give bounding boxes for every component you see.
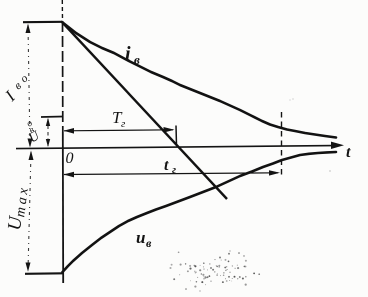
tг dimension line — [64, 173, 278, 175]
svg-text:0: 0 — [66, 150, 74, 167]
Tг end tick — [175, 126, 178, 146]
Iво dimension line — [28, 25, 30, 146]
tг right arrow — [269, 170, 280, 175]
t axis — [16, 146, 333, 149]
vertical axis line (solid lower section) — [62, 132, 64, 283]
Iво bottom arrow — [28, 139, 33, 148]
dashed vertical marker at end of tг — [281, 112, 283, 177]
Iво top arrow — [26, 24, 31, 34]
svg-text:г: г — [172, 164, 176, 176]
svg-text:u: u — [136, 228, 145, 247]
Uво bottom arrow — [46, 139, 50, 147]
svg-text:t: t — [346, 144, 351, 161]
label tг — [164, 157, 176, 176]
tг left arrow — [64, 172, 75, 178]
Uво tick — [41, 116, 63, 119]
label Iво (rotated) — [1, 72, 31, 105]
Uво dimension line — [47, 119, 49, 146]
curve uв — [63, 152, 337, 272]
straight discharge line — [62, 22, 227, 199]
Tг left arrow — [64, 128, 75, 134]
label Tг — [112, 108, 126, 130]
bottom tick Umax level — [25, 272, 63, 275]
svg-text:г: г — [121, 118, 126, 130]
label uв — [136, 228, 152, 250]
Umax dimension line — [28, 152, 31, 270]
svg-text:в: в — [134, 52, 140, 67]
vertical axis line (dashed mid section) — [62, 21, 64, 132]
svg-text:t: t — [164, 157, 169, 174]
Tг right arrow — [164, 127, 175, 133]
t axis arrowhead — [331, 142, 344, 149]
top tick Iво level — [23, 21, 62, 24]
svg-text:в: в — [146, 236, 152, 250]
label Uво (rotated) — [25, 118, 43, 145]
print speckle noise — [169, 99, 330, 292]
Umax top arrow — [29, 151, 34, 161]
Uво top arrow — [46, 118, 50, 126]
label iв — [125, 43, 140, 67]
svg-text:i: i — [125, 43, 131, 65]
Umax bottom arrow — [26, 263, 31, 272]
Tг dimension line — [64, 130, 173, 131]
curve iв — [62, 22, 336, 138]
vertical axis line (dash-dot above start point) — [61, 0, 63, 21]
